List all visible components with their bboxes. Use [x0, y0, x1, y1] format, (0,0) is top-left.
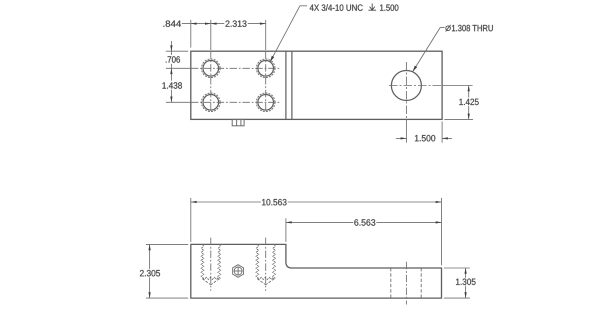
arrowheads .706 [170, 45, 172, 51]
dimension line 1.425 [444, 86, 473, 120]
top view: tapped hole B1 bottom-left [202, 93, 221, 112]
side view: tapped hole 1 thread (hidden) [201, 244, 221, 284]
top view: 1.308 through hole [391, 71, 421, 101]
top view: tapped hole B2 bottom-right [256, 93, 275, 112]
centerline: hole column 2 [265, 20, 267, 112]
side view: part outline with step and fillet [191, 244, 442, 298]
label 2.305 [140, 270, 160, 276]
arrowheads .844 [191, 22, 197, 24]
leader: diameter 1.308 callout [413, 28, 445, 72]
extension lines 10.563 [191, 198, 442, 265]
side view: hex sensor plug [233, 265, 244, 278]
extension line 6.563 step [285, 218, 287, 242]
label 4X 3/4-10 UNC [310, 4, 363, 11]
label .706 [166, 56, 180, 62]
arrowhead leader 1.308 [413, 66, 417, 72]
top view: tapped hole A2 top-right [256, 59, 275, 78]
extension lines 1.305 [444, 268, 470, 298]
label 1.308 THRU [452, 25, 493, 31]
leader: 4X tapped hole callout [270, 6, 307, 62]
dimension line 1.305 [465, 268, 467, 298]
depth symbol in 4X callout [368, 4, 376, 11]
centerline: hole row 1 [166, 67, 280, 69]
extension line: top edge (.706) [166, 50, 188, 52]
label 10.563 [262, 199, 287, 205]
centerline: hole column 1 [210, 20, 212, 112]
extension line: part left edge (.844) [190, 20, 192, 48]
label .844 [163, 20, 181, 26]
side view: tapped hole 2 thread (hidden) [256, 244, 275, 284]
dimension line 2.305 [149, 244, 151, 298]
side view: centerline through hole [405, 262, 407, 305]
label depth 1.500 [380, 4, 398, 10]
label 1.425 [459, 99, 478, 105]
centerline: through hole horizontal [389, 85, 473, 87]
centerline: hole row 2 [166, 101, 280, 103]
arrowheads 2.305 [148, 244, 150, 250]
arrowheads 2.313 [211, 22, 217, 24]
arrowhead 1.438 bottom [170, 97, 172, 103]
label 2.313 [226, 20, 247, 26]
side view: centerline tapped hole 2 [265, 238, 267, 291]
top view: fillet tangent edge [291, 51, 293, 119]
centerline: through hole vertical [405, 62, 407, 143]
dimension line 1.500 top view [396, 121, 452, 142]
label 6.563 [354, 219, 375, 225]
arrowhead leader 4X [270, 56, 274, 62]
dimension line .844 / 2.313 [182, 23, 266, 25]
arrowheads 6.563 [286, 221, 292, 223]
label 1.305 [456, 279, 476, 285]
top view: tapped hole A1 top-left [202, 59, 221, 78]
side view: hidden through hole [391, 268, 421, 298]
top view: part outline [191, 51, 442, 119]
dimension line .706 / 1.438 [170, 41, 172, 102]
arrowheads 10.563 [191, 201, 197, 203]
label 1.500 dim [415, 135, 435, 141]
extension lines 2.305 [146, 244, 188, 298]
label 1.438 [162, 82, 182, 88]
diameter symbol in 1.308 callout [446, 25, 451, 32]
dimension line 10.563 [191, 201, 442, 203]
arrowheads 1.425 [468, 86, 470, 92]
side view: centerline tapped hole 1 [210, 238, 212, 291]
top view: cable boss on bottom edge [232, 119, 244, 125]
dimension line 6.563 [286, 221, 442, 223]
arrowheads 1.500 top view [401, 137, 407, 139]
arrowheads 1.305 [464, 268, 466, 274]
top view: step edge [285, 51, 287, 119]
